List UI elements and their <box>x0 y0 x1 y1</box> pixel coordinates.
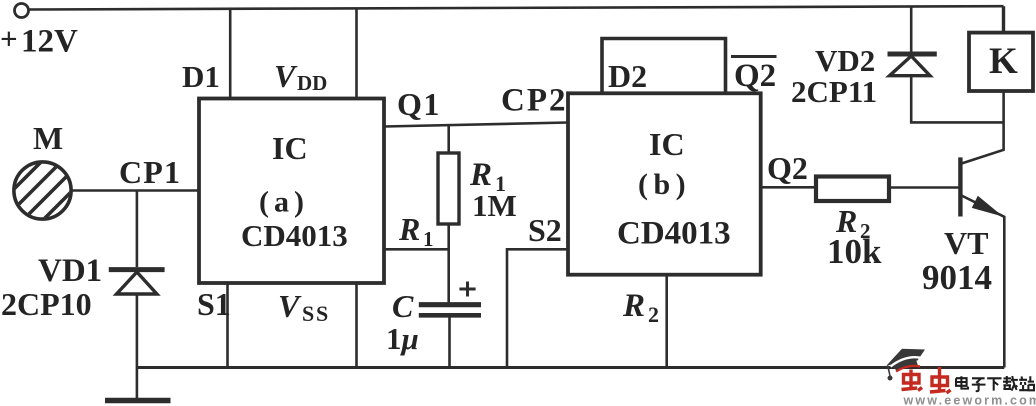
capacitor C <box>419 305 481 316</box>
wire R1 bottom to capacitor C <box>447 224 450 303</box>
resistor R2 <box>816 177 889 202</box>
resistor R1 <box>438 153 459 224</box>
wire CP1 to VD1 <box>136 191 139 268</box>
svg-text:Q2: Q2 <box>767 150 808 186</box>
transistor VT emitter <box>962 196 1005 368</box>
svg-text:CD4013: CD4013 <box>241 218 348 253</box>
svg-text:Q2: Q2 <box>734 58 776 94</box>
wire S2 pin <box>507 249 568 367</box>
wire D2 to Q2bar feedback loop <box>602 39 726 94</box>
svg-text:(b): (b) <box>638 168 691 201</box>
wire rail to VD2 <box>910 7 913 53</box>
svg-text:1: 1 <box>423 227 434 251</box>
svg-text:9014: 9014 <box>922 258 992 297</box>
svg-text:www.eeworm.com: www.eeworm.com <box>903 394 1036 406</box>
svg-text:R: R <box>622 288 645 324</box>
svg-text:12V: 12V <box>21 24 78 60</box>
watermark site name chars <box>956 376 1034 391</box>
wire C to bottom rail <box>448 315 451 367</box>
transistor VT emitter arrow <box>973 197 1002 216</box>
svg-text:IC: IC <box>272 130 308 166</box>
svg-text:R: R <box>398 211 420 247</box>
wire R2 pin of IC(b) to bottom rail <box>665 275 668 368</box>
+12V supply terminal <box>15 4 29 18</box>
svg-text:1μ: 1μ <box>386 321 419 356</box>
wire VD1 to ground <box>136 294 139 398</box>
diode VD2 <box>888 54 937 76</box>
wire M to IC(a) CP1 <box>71 189 199 192</box>
svg-text:Q1: Q1 <box>397 86 441 122</box>
svg-text:D2: D2 <box>608 58 647 94</box>
transistor VT collector <box>962 91 1004 164</box>
label + polarity <box>459 282 475 297</box>
svg-text:+: + <box>0 21 18 56</box>
wire Q1 node down to R1 <box>447 125 450 154</box>
wire R2 to base <box>889 186 959 189</box>
svg-text:C: C <box>392 288 414 324</box>
transistor VT base bar <box>958 157 962 216</box>
IC U1b (CD4013) box <box>568 93 761 274</box>
wire +12V top rail <box>29 6 1004 9</box>
svg-text:1M: 1M <box>472 188 517 223</box>
svg-text:VT: VT <box>944 225 988 261</box>
svg-text:CP2: CP2 <box>501 83 568 119</box>
svg-text:M: M <box>33 120 63 156</box>
wire S1 pin to bottom rail <box>226 283 229 368</box>
svg-text:2CP10: 2CP10 <box>1 286 92 322</box>
svg-text:S1: S1 <box>197 286 231 322</box>
svg-text:IC: IC <box>649 126 685 162</box>
wire rail to relay K <box>1002 6 1005 32</box>
svg-text:V: V <box>278 288 302 324</box>
svg-text:DD: DD <box>297 71 327 95</box>
ground <box>105 398 171 404</box>
svg-text:VD2: VD2 <box>815 43 875 78</box>
diode VD1 <box>109 270 165 294</box>
svg-text:2CP11: 2CP11 <box>791 74 877 109</box>
watermark cap icon <box>887 349 926 381</box>
svg-text:CP1: CP1 <box>119 154 181 190</box>
svg-text:S2: S2 <box>528 212 562 248</box>
IC U1a (CD4013) box <box>199 99 384 284</box>
wire D1 pin to rail <box>229 9 232 99</box>
wire VSS pin to bottom rail <box>355 283 358 368</box>
relay K <box>969 33 1033 91</box>
svg-text:VD1: VD1 <box>38 253 102 289</box>
svg-text:K: K <box>989 41 1018 82</box>
wire bottom rail <box>137 366 1004 369</box>
svg-text:CD4013: CD4013 <box>617 216 731 252</box>
svg-text:2: 2 <box>648 302 659 327</box>
wire IC(a) R pin <box>384 248 449 251</box>
microphone M <box>8 156 77 225</box>
svg-text:D1: D1 <box>182 59 220 94</box>
svg-text:V: V <box>274 58 298 94</box>
wire VDD pin to rail <box>355 8 358 99</box>
wire Q2 to R2 <box>761 186 816 189</box>
wire VD2 to collector junction <box>911 76 1003 123</box>
svg-text:10k: 10k <box>827 232 882 271</box>
wire Q1 to CP2 <box>384 123 568 127</box>
watermark chongchong chars <box>902 367 951 393</box>
svg-text:(a): (a) <box>259 186 309 219</box>
svg-text:SS: SS <box>302 301 330 326</box>
